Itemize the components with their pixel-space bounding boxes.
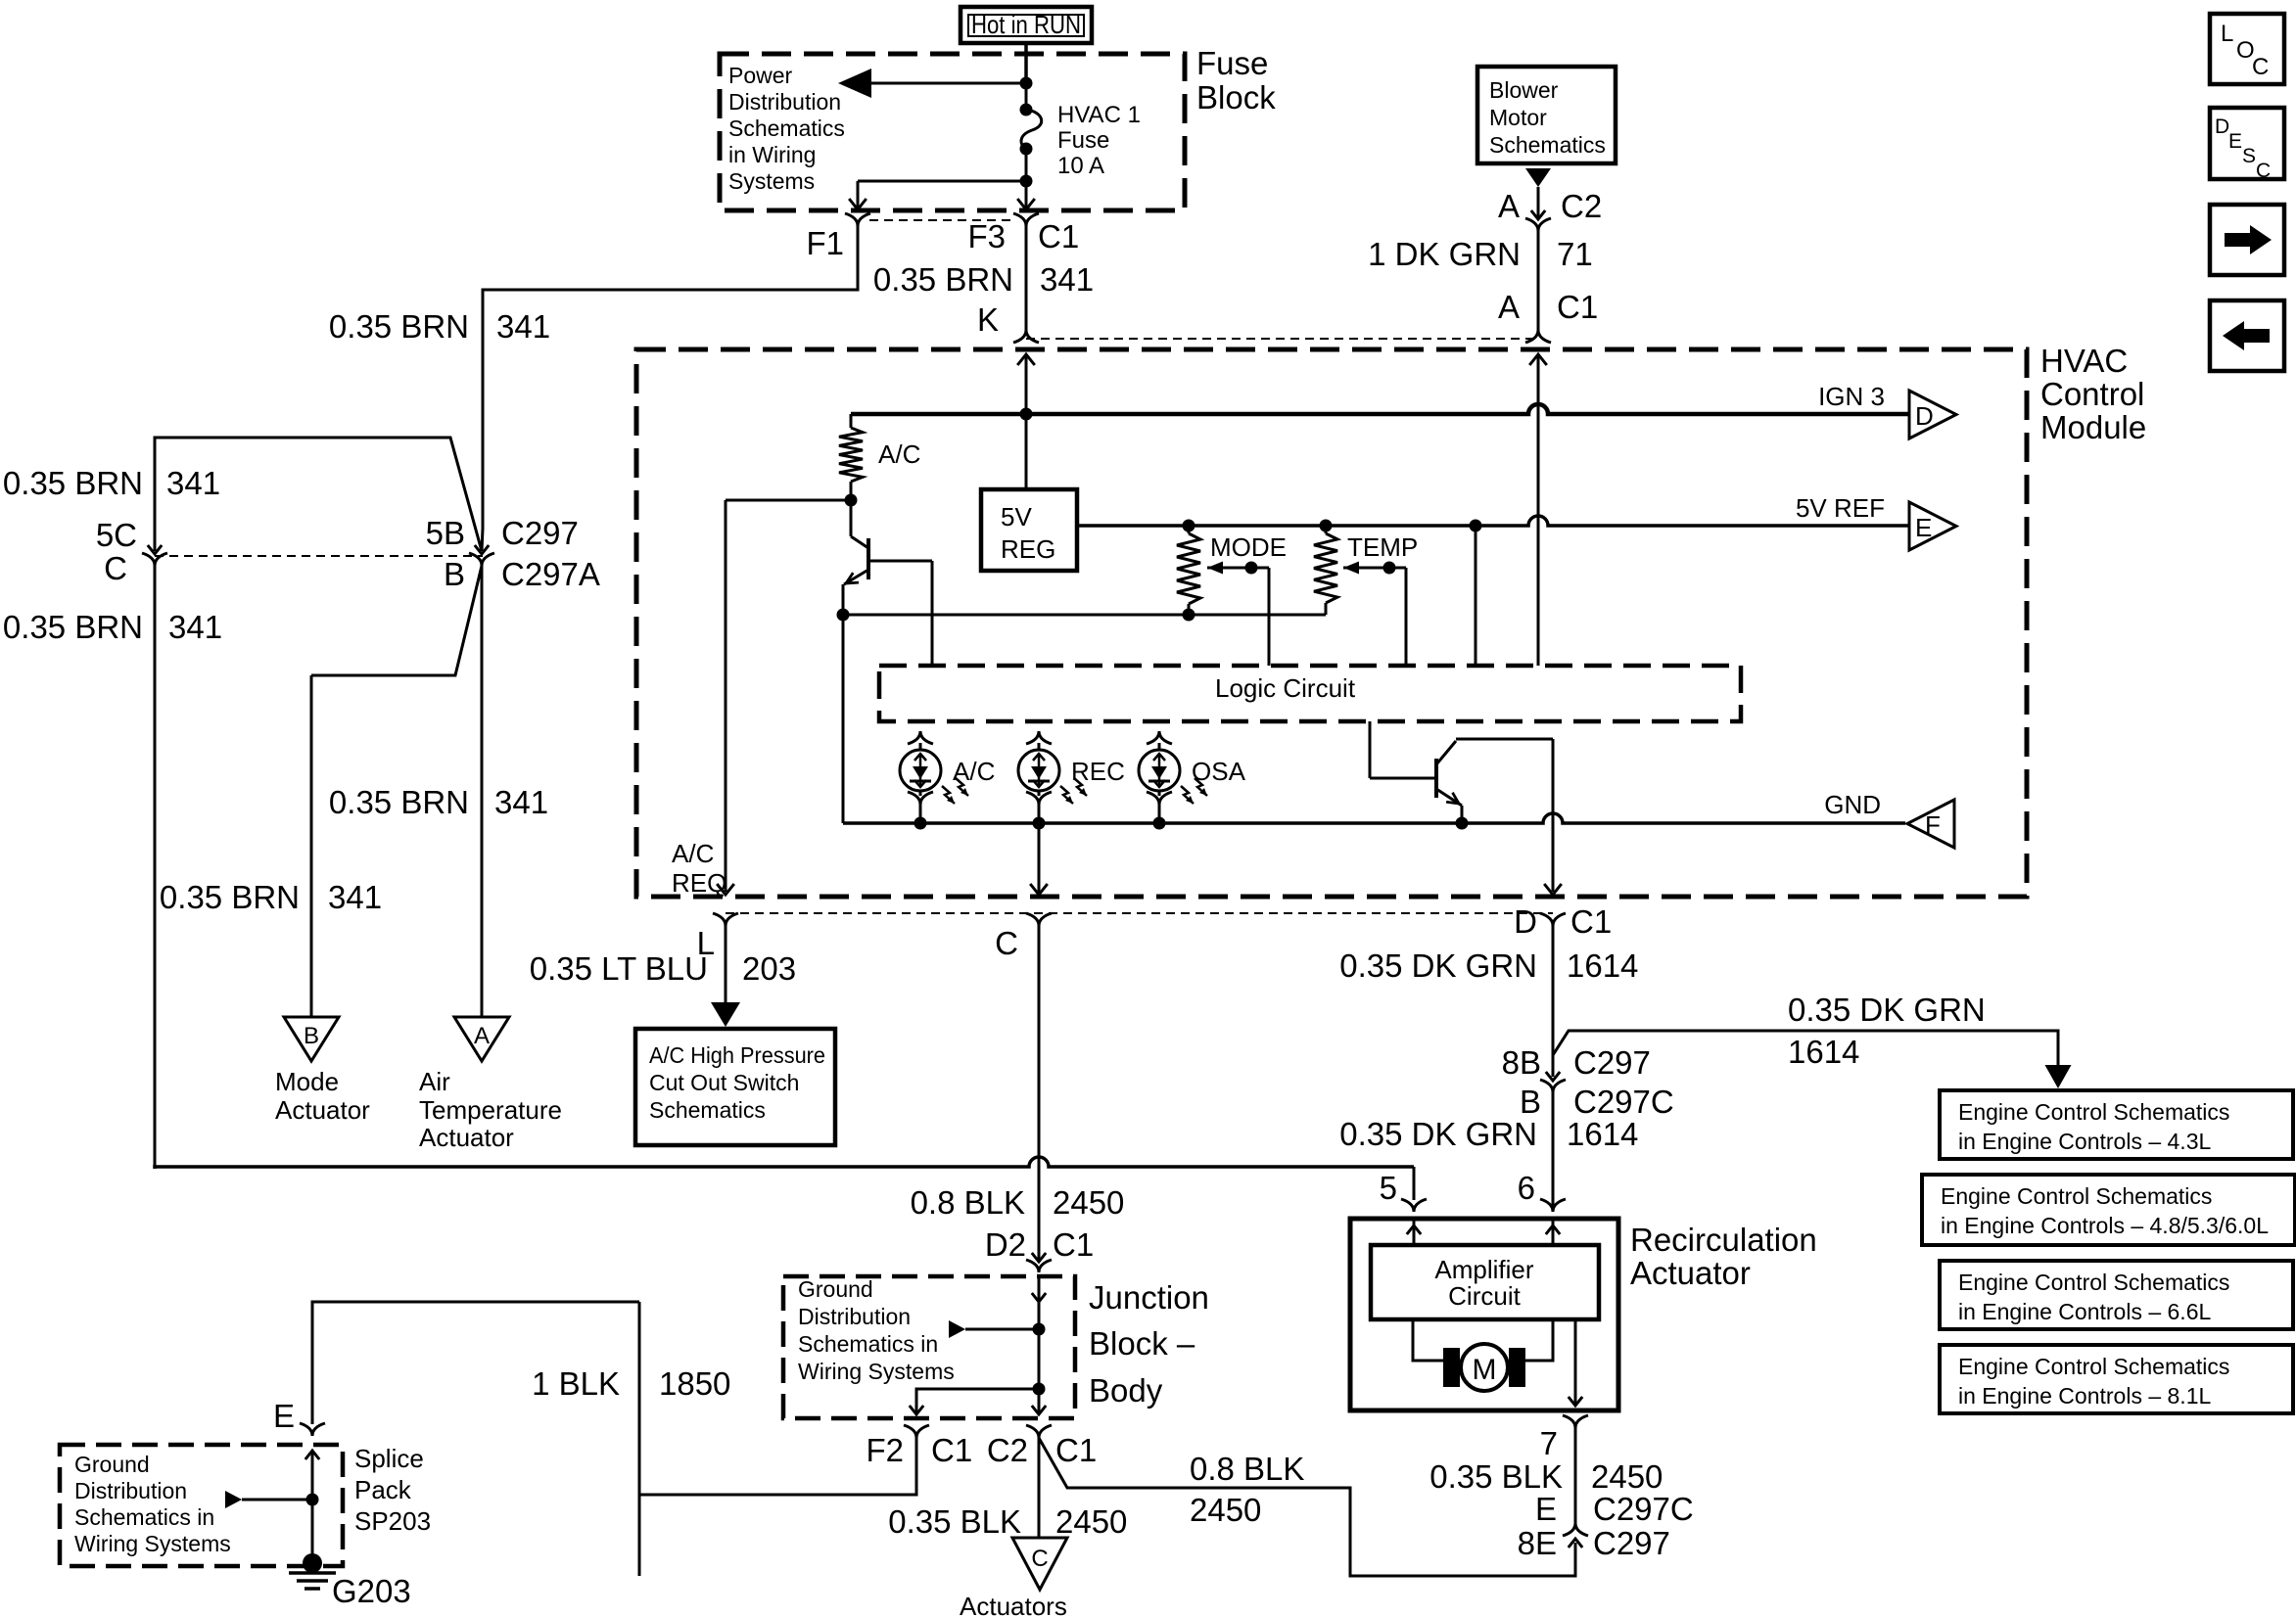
label: C1 (F2) [931,1432,972,1468]
svg-text:Engine Control Schematics: Engine Control Schematics [1958,1099,2229,1125]
svg-text:C297A: C297A [501,556,600,592]
junction dot LED REC [1033,817,1046,830]
info box: Engine Control Schematics 3 [1940,1261,2293,1329]
svg-text:Engine Control Schematics: Engine Control Schematics [1958,1270,2229,1295]
connector interface line C1 (module top) [1026,338,1538,340]
wire: B to air temp actuator [481,566,484,1017]
svg-text:C297: C297 [1573,1044,1651,1081]
svg-text:5V: 5V [1001,502,1032,531]
wire: A/C REQ branch [726,500,851,892]
wire label: 1 BLK 1850 [532,1365,730,1402]
info box: Engine Control Schematics 1 [1940,1090,2293,1159]
svg-text:C: C [1031,1546,1048,1572]
Junction Block dashed box [783,1276,1075,1418]
svg-text:Splice: Splice [354,1444,424,1473]
svg-text:341: 341 [328,879,382,915]
svg-text:M: M [1473,1354,1497,1386]
svg-text:Fuse: Fuse [1196,45,1268,81]
connector interface line C1 (fuse block) [869,219,1014,221]
wire: C2 to A C1 [1537,231,1540,331]
svg-text:1850: 1850 [659,1365,730,1402]
wire label: 0.35 BRN 341 (F1 wire) [329,308,550,345]
connector pin 7 [1563,1415,1588,1428]
actuator triangle B [284,1017,339,1061]
svg-text:2450: 2450 [1053,1184,1124,1221]
svg-text:Distribution: Distribution [728,89,841,115]
label: C2 [987,1432,1028,1468]
svg-text:D: D [1514,903,1537,940]
label: B (C297C) [1520,1084,1541,1120]
wire: C to recirc pin5 run [154,566,157,1167]
junction dot jb-2 [1033,1383,1046,1396]
svg-text:C1: C1 [1570,903,1612,940]
svg-text:C2: C2 [1561,188,1602,224]
svg-text:0.35 DK GRN: 0.35 DK GRN [1788,992,1986,1028]
connector pin C2 [1026,1425,1052,1438]
info box: A/C High Pressure Cut Out Switch Schematics [635,1029,835,1145]
transistor Q1 [843,500,868,615]
svg-text:Actuators: Actuators [960,1592,1067,1617]
svg-text:Systems: Systems [728,168,815,194]
svg-text:Recirculation: Recirculation [1630,1222,1817,1258]
svg-text:D2: D2 [985,1226,1026,1263]
svg-text:0.35 BLK: 0.35 BLK [888,1503,1021,1540]
svg-text:8E: 8E [1518,1525,1557,1561]
wire label: 0.8 BLK 2450 (C-D2) [911,1184,1125,1221]
wire: pin6 into amplifier [1546,1219,1560,1245]
HVAC Control Module dashed box [636,349,2027,897]
svg-text:Power: Power [728,63,793,88]
ground G203 [289,1553,336,1589]
svg-text:Wiring Systems: Wiring Systems [798,1359,955,1384]
svg-text:341: 341 [1040,261,1094,298]
output triangle D (IGN 3) [1909,391,1956,439]
label: 5V REF [1796,493,1885,523]
junction dot at fuse top [1020,77,1033,90]
svg-text:2450: 2450 [1190,1492,1261,1528]
svg-text:C2: C2 [987,1432,1028,1468]
transistor Q2 [1436,741,1462,823]
svg-text:Circuit: Circuit [1448,1281,1521,1311]
ground distribution tap arrow (junction) [949,1320,1039,1338]
svg-text:10 A: 10 A [1057,153,1104,179]
svg-text:Wiring Systems: Wiring Systems [74,1531,231,1556]
svg-text:1614: 1614 [1567,1116,1638,1152]
LED A/C [900,731,995,823]
svg-text:in Wiring: in Wiring [728,142,816,167]
wire: pin7 to E connector [1574,1428,1577,1523]
svg-text:Cut Out Switch: Cut Out Switch [649,1070,799,1095]
power tag box: Hot in RUN [961,7,1092,43]
wire: C2 to 8E run (0.8 BLK) [1039,1438,1575,1576]
label: C1 (blower) [1557,289,1598,325]
wire: C2 to actuators C triangle [1038,1438,1041,1538]
svg-text:D: D [1915,401,1934,431]
actuator triangle A [454,1017,509,1061]
svg-text:Module: Module [2040,409,2146,445]
label: HVAC 1 Fuse 10 A [1057,102,1141,179]
wire label: 0.35 BLK 2450 (pin7) [1429,1458,1663,1495]
wire: jb to F2 [910,1389,1039,1414]
connector pin F2 [904,1425,929,1438]
wire: Q2 collector to D [1456,739,1553,892]
svg-text:Block –: Block – [1089,1325,1195,1362]
svg-text:0.8 BLK: 0.8 BLK [911,1184,1025,1221]
svg-text:Temperature: Temperature [419,1095,562,1125]
svg-text:Distribution: Distribution [798,1304,911,1329]
label: C1 (module bottom) [1570,903,1612,940]
LED OSA [1139,731,1246,823]
svg-text:Ground: Ground [798,1276,873,1302]
wire: amp to pin7 [1569,1319,1582,1406]
svg-text:REC: REC [1071,757,1125,786]
svg-text:Actuator: Actuator [419,1123,514,1152]
svg-text:GND: GND [1824,790,1881,819]
label: MODE [1210,532,1287,562]
5V REF rail [1077,516,1909,526]
svg-text:0.35 BRN: 0.35 BRN [3,609,143,645]
label: D2 [985,1226,1026,1263]
svg-text:REQ: REQ [672,868,726,898]
svg-text:Pack: Pack [354,1475,412,1504]
svg-text:Block: Block [1196,79,1276,115]
connector pin K (funnel+arrow) [1013,330,1039,365]
svg-text:Junction: Junction [1089,1279,1209,1316]
svg-text:71: 71 [1557,236,1593,272]
info box: Engine Control Schematics 2 [1922,1175,2295,1245]
connector pin 8B/B [1540,1072,1566,1092]
svg-text:1614: 1614 [1788,1034,1859,1070]
potentiometer wiper TEMP [1343,562,1406,667]
svg-text:Amplifier: Amplifier [1434,1255,1533,1284]
svg-text:A/C: A/C [672,839,714,868]
connector pin D (module) [1540,884,1566,926]
svg-text:1614: 1614 [1567,947,1638,984]
label: 5 [1380,1170,1397,1206]
svg-text:0.35 DK GRN: 0.35 DK GRN [1339,947,1537,984]
Amplifier Circuit box [1371,1245,1599,1319]
svg-text:Logic Circuit: Logic Circuit [1215,673,1356,703]
junction dot Q2 emitter [1456,817,1469,830]
svg-text:in Engine Controls – 6.6L: in Engine Controls – 6.6L [1958,1299,2211,1324]
svg-text:0.35 BRN: 0.35 BRN [329,784,469,820]
svg-text:0.35 BRN: 0.35 BRN [160,879,300,915]
label: F2 [866,1432,904,1468]
wire: Q1 base to logic [868,561,932,666]
text: Power Distribution Schematics in Wiring Systems [728,63,845,194]
wire: jb to C2 [1032,1389,1046,1414]
label: Splice Pack SP203 [354,1444,431,1536]
label: Recirculation Actuator [1630,1222,1817,1291]
svg-text:MODE: MODE [1210,532,1287,562]
splice pack dashed box [60,1445,343,1566]
svg-text:Schematics in: Schematics in [798,1331,938,1357]
label: IGN 3 [1818,382,1885,411]
svg-text:Schematics: Schematics [649,1097,766,1123]
label: 6 [1518,1170,1535,1206]
label: C297 [501,515,579,551]
connector pin 5 (recirc) [1401,1167,1427,1212]
label: E (C297C) [1535,1491,1557,1527]
label: Actuators [960,1592,1067,1617]
wire: F2 to splice run (1 BLK 1850) [312,1302,916,1576]
label: C297C (8B) [1573,1084,1674,1120]
text: Ground Distribution Schematics in Wiring Systems (junction) [798,1276,955,1384]
label: Fuse Block [1196,45,1276,115]
junction dot MODE top [1183,520,1195,532]
junction dot Q1 collector node [845,494,858,507]
svg-text:C: C [995,925,1018,961]
label: E (splice) [273,1398,295,1434]
LED REC [1018,731,1125,823]
branch to engine controls [1553,1031,2072,1088]
label: TEMP [1347,532,1418,562]
svg-text:TEMP: TEMP [1347,532,1418,562]
svg-text:Mode: Mode [275,1067,339,1096]
svg-text:C: C [2256,160,2271,182]
svg-text:C297: C297 [501,515,579,551]
wire: dot to fuse element [1025,83,1028,111]
label: Mode Actuator [275,1067,370,1125]
wire: 5V REG feed [1025,414,1028,489]
label: C297C (E) [1593,1491,1694,1527]
label: A/C (resistor) [878,439,920,469]
svg-text:E: E [2228,130,2242,153]
label: C2 [1561,188,1602,224]
svg-text:5V REF: 5V REF [1796,493,1885,523]
svg-text:IGN 3: IGN 3 [1818,382,1885,411]
wire: Hot in RUN to fuse [1024,43,1028,83]
resistor MODE [1177,526,1200,615]
svg-text:0.35 DK GRN: 0.35 DK GRN [1339,1116,1537,1152]
svg-text:C297: C297 [1593,1525,1670,1561]
connector pin A (funnel+arrow) [1525,330,1551,365]
label: C (C297) [104,550,127,586]
wire: 5B-5C jumper [155,438,482,551]
svg-text:B: B [304,1023,319,1049]
svg-text:0.35 BRN: 0.35 BRN [329,308,469,345]
svg-text:D: D [2215,115,2229,138]
svg-text:0.35 LT BLU: 0.35 LT BLU [530,950,708,987]
svg-text:Schematics: Schematics [728,115,845,141]
svg-text:Control: Control [2040,376,2144,412]
label: 8E [1518,1525,1557,1561]
label: 8B [1502,1044,1541,1081]
connector pin D2 [1026,1253,1052,1272]
wire label: 0.35 BRN 341 (air temp) [329,784,548,820]
icon: back arrow box [2210,300,2284,371]
svg-text:Blower: Blower [1489,77,1559,103]
svg-text:A: A [1498,188,1520,224]
svg-text:8B: 8B [1502,1044,1541,1081]
svg-text:C1: C1 [1055,1432,1097,1468]
label: GND [1824,790,1881,819]
junction dot LED OSA [1153,817,1166,830]
svg-text:Schematics: Schematics [1489,132,1606,158]
label: A/C REQ [672,839,726,898]
svg-text:7: 7 [1540,1425,1558,1461]
label: K [977,301,999,338]
label: 5B [426,515,465,551]
svg-text:5C: 5C [96,517,137,553]
wire: logic to Q2 base [1370,721,1436,778]
svg-text:0.8 BLK: 0.8 BLK [1190,1451,1304,1487]
svg-text:C1: C1 [1053,1226,1094,1263]
label: F3 [967,218,1006,254]
svg-text:S: S [2242,145,2256,167]
svg-text:F3: F3 [967,218,1006,254]
wire: C LED branch [1038,823,1041,895]
svg-text:F: F [1925,810,1941,840]
info box: Blower Motor Schematics [1477,67,1616,163]
junction dot TEMP top [1320,520,1333,532]
svg-text:2450: 2450 [1591,1458,1663,1495]
svg-text:B: B [444,556,465,592]
wire: fuse to F3 [1025,149,1028,209]
svg-text:203: 203 [742,950,796,987]
junction dot LED A/C [914,817,927,830]
wire: resistor to Q1 node [850,482,853,500]
wire: B to mode actuator [311,566,482,1017]
svg-text:1 DK GRN: 1 DK GRN [1368,236,1521,272]
svg-text:C1: C1 [931,1432,972,1468]
label: A (C1) [1498,289,1520,325]
svg-text:A: A [474,1023,490,1049]
svg-text:0.35 BLK: 0.35 BLK [1429,1458,1563,1495]
connector pin C (module) [1026,884,1052,926]
svg-text:A/C: A/C [953,757,995,786]
wire label: 0.35 BRN 341 (lower left) [3,609,222,645]
label: C297 (8E) [1593,1525,1670,1561]
junction dot 5V-logic [1470,520,1482,532]
label: 7 [1540,1425,1558,1461]
LED/GND rail [843,813,1905,823]
svg-text:G203: G203 [332,1573,411,1609]
svg-text:OSA: OSA [1192,757,1246,786]
svg-text:0.35 BRN: 0.35 BRN [3,465,143,501]
svg-text:Distribution: Distribution [74,1478,187,1503]
junction dot F1 branch [1020,175,1033,188]
motor M [1443,1344,1525,1391]
label: B (C297A) [444,556,465,592]
svg-text:F2: F2 [866,1432,904,1468]
svg-text:0.35 BRN: 0.35 BRN [873,261,1013,298]
svg-text:Motor: Motor [1489,105,1547,130]
wire label: 0.35 BRN 341 (mode) [160,879,382,915]
label: C1 (fuse) [1038,218,1079,254]
connector pin A C2 [1525,210,1551,231]
label: 5C [96,517,137,553]
svg-text:A/C High Pressure: A/C High Pressure [649,1042,825,1068]
wire label: 0.35 DK GRN 1614 (upper) [1339,947,1638,984]
wire: amp to motor left [1413,1319,1443,1361]
wire: 5V to logic box [1475,526,1477,666]
fuse HVAC 1 element [1020,104,1042,156]
svg-text:L: L [2221,21,2233,47]
label: HVAC Control Module [2040,343,2146,445]
output triangle F (GND) [1907,800,1954,848]
junction dot IGN3/main [1020,408,1033,421]
svg-text:Air: Air [419,1067,450,1096]
wire: emitter down to LED rail [842,615,845,823]
label: C (module pin) [995,925,1018,961]
svg-text:in Engine Controls – 8.1L: in Engine Controls – 8.1L [1958,1383,2211,1409]
wire label: 0.35 DK GRN 1614 (lower) [1339,1116,1638,1152]
svg-text:in Engine Controls – 4.3L: in Engine Controls – 4.3L [1958,1129,2211,1154]
svg-text:C297C: C297C [1573,1084,1674,1120]
svg-text:A/C: A/C [878,439,920,469]
wire: into junction block [1032,1274,1046,1389]
connector pin L [713,884,738,926]
svg-text:E: E [1535,1491,1557,1527]
label: C1 (C2) [1055,1432,1097,1468]
wire label: 0.8 BLK 2450 (bottom) [1190,1451,1304,1528]
svg-text:341: 341 [166,465,220,501]
potentiometer wiper MODE [1207,562,1269,667]
label: F1 [806,225,844,261]
svg-text:341: 341 [168,609,222,645]
svg-text:B: B [1520,1084,1541,1120]
ground distribution tap arrow (splice) [225,1491,312,1508]
svg-text:in Engine Controls – 4.8/5.3/6: in Engine Controls – 4.8/5.3/6.0L [1941,1213,2269,1238]
connector pin E [300,1423,325,1459]
svg-text:C: C [2252,54,2269,80]
wire label: 0.35 BRN 341 (F3-K) [873,261,1094,298]
svg-text:Ground: Ground [74,1452,150,1477]
wire: feed to power distribution (arrow left) [838,69,1026,98]
svg-text:341: 341 [494,784,548,820]
connector interface line C297 [155,555,483,557]
label: G203 [332,1573,411,1609]
junction dot MODE bottom [1183,609,1195,622]
junction dot splice [306,1494,319,1506]
svg-text:HVAC 1: HVAC 1 [1057,102,1141,128]
svg-text:Engine Control Schematics: Engine Control Schematics [1958,1354,2229,1379]
label: A (C2) [1498,188,1520,224]
actuator triangle C [1012,1538,1067,1590]
wire: splice internal [311,1451,314,1563]
svg-text:Actuator: Actuator [1630,1255,1751,1291]
svg-text:C297C: C297C [1593,1491,1694,1527]
connector pin 5C/C [142,545,167,566]
label: C1 (junction top) [1053,1226,1094,1263]
connector interface line C1 (module bottom) [726,912,1553,914]
icon: LOC box [2210,14,2284,84]
fuse block dashed box [720,54,1185,210]
svg-text:K: K [977,301,999,338]
connector pin F1 (arrow+funnel) [845,199,870,226]
connector pin 5B/B [469,545,494,566]
svg-text:Body: Body [1089,1372,1163,1409]
svg-text:Engine Control Schematics: Engine Control Schematics [1941,1183,2212,1209]
icon: DESC box [2210,108,2284,182]
wire: K into module [1025,354,1028,414]
icon: forward arrow box [2210,205,2284,275]
label: Junction Block - Body [1089,1279,1209,1409]
svg-text:Fuse: Fuse [1057,127,1109,154]
label: C297 (8B) [1573,1044,1651,1081]
svg-text:HVAC: HVAC [2040,343,2128,379]
svg-text:F1: F1 [806,225,844,261]
text: Ground Distribution Schematics in Wiring Systems (splice) [74,1452,231,1556]
wire: branch to F1 [858,181,1026,208]
svg-text:C1: C1 [1038,218,1079,254]
svg-text:E: E [273,1398,295,1434]
output triangle E (5V REF) [1909,502,1956,550]
junction dot jb-1 [1033,1323,1046,1336]
wire label: 0.35 DK GRN 1614 (branch) [1788,992,1986,1070]
wire: recirc pin5 horizontal run [155,1157,1414,1169]
